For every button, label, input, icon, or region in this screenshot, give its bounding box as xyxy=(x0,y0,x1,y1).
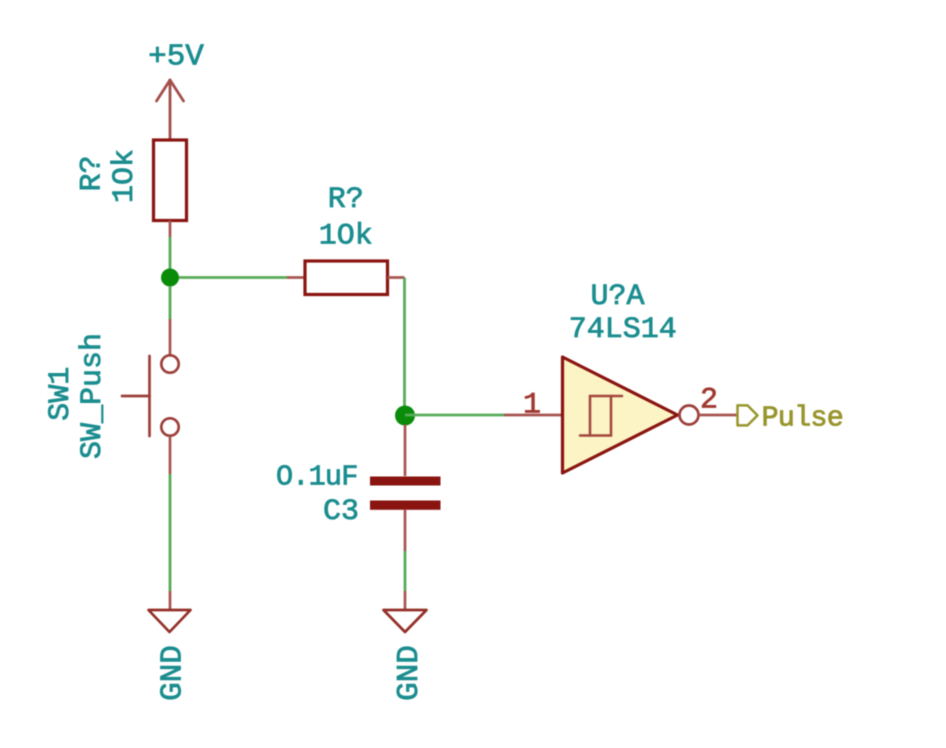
wire resistor R? (pull-up) bottom pin stub xyxy=(169,221,172,238)
wire junction A down segment xyxy=(169,286,172,319)
switch SW1 actuator stem xyxy=(122,395,150,398)
svg-text:O.1uF: O.1uF xyxy=(276,460,358,493)
wire junction A up segment xyxy=(169,237,172,286)
svg-text:Pulse: Pulse xyxy=(762,402,844,435)
wire switch SW1 bottom pin stub xyxy=(169,436,172,474)
junction B xyxy=(395,406,415,426)
svg-text:R?: R? xyxy=(328,183,364,217)
svg-text:U?A: U?A xyxy=(590,280,644,314)
svg-text:1Ok: 1Ok xyxy=(108,149,142,203)
wire gate output pin 2 stub xyxy=(699,414,738,417)
wire gate input pin 1 stub xyxy=(504,414,562,417)
wire switch to ground xyxy=(169,474,172,591)
svg-text:R?: R? xyxy=(76,155,110,191)
resistor R? (series) body xyxy=(305,261,388,295)
wire resistor R? (series) down to junction B xyxy=(403,278,406,416)
junction A xyxy=(161,269,179,287)
wire junction B to gate input xyxy=(405,414,504,417)
wire ground left pin stub xyxy=(169,591,172,610)
wire switch SW1 top pin stub xyxy=(169,319,172,355)
svg-text:SW_Push: SW_Push xyxy=(76,333,110,459)
ground symbol right xyxy=(384,610,427,632)
svg-text:GND: GND xyxy=(156,645,191,701)
switch SW1 actuator bar xyxy=(148,356,151,436)
svg-text:74LS14: 74LS14 xyxy=(569,313,677,347)
wire junction B to capacitor C3 xyxy=(404,425,407,477)
svg-text:1: 1 xyxy=(523,389,541,423)
capacitor C3 bottom plate xyxy=(370,501,441,510)
svg-text:2: 2 xyxy=(700,384,718,418)
wire resistor R? (series) left pin stub xyxy=(287,276,305,279)
wire capacitor to ground xyxy=(404,551,407,591)
svg-text:+5V: +5V xyxy=(148,40,204,75)
power symbol +5V xyxy=(157,80,184,140)
svg-text:C3: C3 xyxy=(323,495,359,529)
svg-text:GND: GND xyxy=(392,645,427,701)
wire junction A to resistor R2 xyxy=(179,276,287,279)
switch SW1 top contact xyxy=(161,355,178,372)
switch SW1 bottom contact xyxy=(161,418,178,435)
ground symbol left xyxy=(149,610,191,632)
svg-text:1Ok: 1Ok xyxy=(319,219,373,253)
hierarchical label arrow Pulse xyxy=(738,405,758,425)
wire resistor R? (series) right pin stub xyxy=(388,276,405,279)
inverter U?A output bubble xyxy=(680,406,699,425)
inverter U?A triangle body xyxy=(563,357,678,473)
svg-text:SW1: SW1 xyxy=(44,367,78,421)
wire ground right pin stub xyxy=(404,591,407,610)
capacitor C3 top plate xyxy=(370,477,441,486)
wire capacitor C3 bottom pin stub xyxy=(404,510,407,551)
inverter U?A hysteresis glyph xyxy=(580,396,622,436)
resistor R? (pull-up) body xyxy=(154,140,187,221)
